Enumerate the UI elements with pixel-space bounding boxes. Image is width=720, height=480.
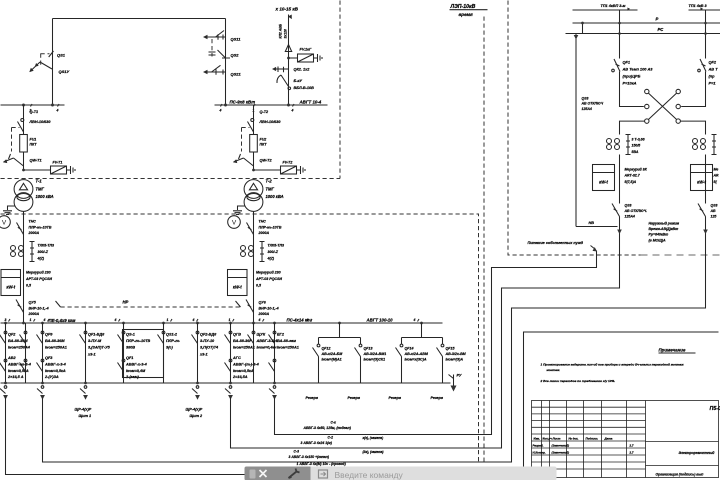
node on 0.4kV bus <box>41 322 44 325</box>
svg-text:2×16,5 А: 2×16,5 А <box>7 375 24 379</box>
svg-text:ТЛ05-ТЛ3: ТЛ05-ТЛ3 <box>268 244 285 248</box>
fuse FU2 <box>250 135 258 153</box>
bus tick <box>233 319 235 322</box>
svg-text:3 АВВГ-3 4х24 1(м): 3 АВВГ-3 4х24 1(м) <box>301 441 333 445</box>
svg-text:ПЛР-нь-10ТВ: ПЛР-нь-10ТВ <box>259 225 282 229</box>
dashed enclosure KTP boundary (y=213.5 then down x=478) <box>1 214 479 462</box>
outgoing connector <box>269 382 277 400</box>
node on 0.4kV bus <box>196 322 199 325</box>
wire to FV-Т1 <box>24 169 51 171</box>
svg-text:4: 4 <box>56 109 59 113</box>
switch QУ6 <box>246 300 254 313</box>
svg-text:Резерв: Резерв <box>306 396 319 400</box>
bus 10kV section 1 <box>1 104 65 106</box>
wire to arrester FV1 <box>289 57 298 59</box>
reserve bracket at 339 <box>319 323 361 345</box>
svg-text:2.7: 2.7 <box>629 451 634 455</box>
tie link HP (dashed) <box>61 306 241 308</box>
node on 0.4kV bus <box>420 322 423 325</box>
svg-text:QУ6: QУ6 <box>259 301 267 305</box>
node: bridge tap left <box>51 104 54 107</box>
svg-text:Т-1: Т-1 <box>36 179 43 184</box>
svg-text:QF3: QF3 <box>45 356 53 360</box>
svg-text:ПЛР-ль-10ТВ: ПЛР-ль-10ТВ <box>126 339 151 343</box>
svg-text:АВ Т: АВ Т <box>708 67 719 72</box>
svg-text:Время-АВ(Д)кВт: Время-АВ(Д)кВт <box>649 227 679 231</box>
svg-text:АВ-х/2А-БМ: АВ-х/2А-БМ <box>321 352 344 356</box>
svg-text:3,(ЗАП)Т-У5: 3,(ЗАП)Т-У5 <box>88 346 111 350</box>
node: arrester tap <box>22 169 25 172</box>
svg-text:кW-t: кW-t <box>599 180 608 185</box>
svg-text:АВГТ 100-10: АВГТ 100-10 <box>366 318 394 323</box>
wire: left riser <box>575 34 577 227</box>
transformer Т-1 <box>14 180 33 199</box>
wire: crossover bottom right <box>680 121 705 134</box>
current transformers TA4 <box>693 139 698 144</box>
svg-text:1000 кВА: 1000 кВА <box>266 194 284 199</box>
feeder QF at x=42 <box>37 323 44 383</box>
svg-text:3,П(ОТ)Т4: 3,П(ОТ)Т4 <box>200 346 219 350</box>
svg-text:Кол.уч: Кол.уч <box>543 437 553 441</box>
svg-text:Примечание: Примечание <box>659 348 686 353</box>
svg-text:АВ-3/2А-ВМ1: АВ-3/2А-ВМ1 <box>363 352 387 356</box>
svg-text:П5-0012-ЭС: П5-0012-ЭС <box>710 406 720 412</box>
svg-text:QF2: QF2 <box>8 333 16 337</box>
svg-text:Iном=(З)СК1: Iном=(З)СК1 <box>364 358 386 362</box>
svg-text:Разраб.: Разраб. <box>533 444 544 448</box>
current transformers TA3 <box>607 139 612 144</box>
svg-text:АВ ОТКЛЮЧ.: АВ ОТКЛЮЧ. <box>624 209 648 213</box>
bus PC <box>566 33 720 35</box>
wire: crossover bottom left <box>620 121 645 134</box>
svg-text:QF14: QF14 <box>405 347 414 351</box>
svg-text:Iном=(М)А1: Iном=(М)А1 <box>322 358 342 362</box>
svg-text:1: 1 <box>229 318 231 322</box>
svg-text:ЛВН-10/630: ЛВН-10/630 <box>29 120 52 124</box>
svg-text:АРТ-03 РQСSИ: АРТ-03 РQСSИ <box>255 277 282 281</box>
outgoing connector <box>225 382 233 400</box>
jumper P-PC <box>582 23 584 34</box>
svg-text:3х120: 3х120 <box>284 29 288 39</box>
switch QS4 <box>612 204 620 217</box>
svg-text:QW-Т2: QW-Т2 <box>260 159 273 163</box>
svg-text:АВВГ-3 4х50, 125м, (подвал): АВВГ-3 4х50, 125м, (подвал) <box>303 426 352 430</box>
ground (transformer neutral) <box>233 206 245 215</box>
feeder QF at x=5 <box>0 323 7 383</box>
svg-text:ПКТ: ПКТ <box>30 143 38 147</box>
svg-text:FV-Т1: FV-Т1 <box>53 161 63 165</box>
svg-text:время: время <box>459 12 474 17</box>
svg-text:QS1: QS1 <box>57 53 66 58</box>
svg-text:ЩР-4(х)Р: ЩР-4(х)Р <box>75 408 92 412</box>
svg-text:монтаж.: монтаж. <box>547 368 561 372</box>
current transformers ТА1 <box>11 246 16 251</box>
svg-text:Электроремонтный: Электроремонтный <box>679 451 716 455</box>
bus tick <box>311 319 313 322</box>
voltmeter PV2 <box>228 216 241 229</box>
dashed boundary x=507 with corner to the right <box>508 1 641 256</box>
svg-text:ПЛР-ль: ПЛР-ль <box>166 339 180 343</box>
svg-text:2.7: 2.7 <box>629 444 634 448</box>
svg-text:QК2. 1х2: QК2. 1х2 <box>294 68 311 72</box>
switch Q-Т1 <box>23 105 25 135</box>
switch QW-Т1 <box>4 158 24 166</box>
switch QУ5 <box>16 300 24 313</box>
node: arrester tap <box>252 169 255 172</box>
svg-text:5ВА: 5ВА <box>632 150 639 154</box>
prompt icon <box>319 470 328 478</box>
svg-text:4(Z): 4(Z) <box>37 256 45 260</box>
svg-text:Щит 2: Щит 2 <box>190 414 204 418</box>
svg-text:3-ПУ-М: 3-ПУ-М <box>88 339 102 343</box>
svg-text:ВНР-10-1,-4: ВНР-10-1,-4 <box>29 306 49 310</box>
svg-text:АВВГ-х-3-4: АВВГ-х-3-4 <box>125 362 148 366</box>
switch QW3 <box>272 67 314 91</box>
wire B <box>231 234 620 449</box>
svg-text:4: 4 <box>413 318 416 322</box>
feeder QF at x=123 <box>118 323 125 383</box>
svg-text:2=16,5А: 2=16,5А <box>232 375 248 379</box>
svg-text:FV-Т2: FV-Т2 <box>283 161 293 165</box>
node on 0.4kV bus <box>338 322 341 325</box>
switch QS5r <box>698 204 706 217</box>
node on 0.4kV bus <box>22 322 25 325</box>
svg-text:1 Проектирование габарита лин: 1 Проектирование габарита лин-ий нов при… <box>541 363 685 367</box>
svg-text:QS-1: QS-1 <box>126 333 135 337</box>
svg-text:4(Z): 4(Z) <box>267 256 275 260</box>
wire C <box>43 234 706 463</box>
svg-text:х 10-15 кВ: х 10-15 кВ <box>275 7 299 12</box>
svg-text:2000А: 2000А <box>28 231 40 235</box>
svg-text:Организация (подпись) вып: Организация (подпись) вып <box>656 473 705 477</box>
svg-text:С-3: С-3 <box>294 450 300 454</box>
grey dashed boundary segment right <box>641 254 720 256</box>
tool icon <box>289 469 300 479</box>
small panel icon <box>250 470 256 479</box>
svg-text:4: 4 <box>291 109 294 113</box>
svg-text:1: 1 <box>167 318 169 322</box>
svg-text:3 АВВГ-3 4х150 +(канал): 3 АВВГ-3 4х150 +(канал) <box>289 455 330 459</box>
svg-text:ЕГ2: ЕГ2 <box>277 333 285 337</box>
command bar dark segment <box>245 467 311 480</box>
command bar background <box>245 467 557 480</box>
svg-text:Резерв: Резерв <box>431 396 444 400</box>
svg-text:2000А: 2000А <box>258 312 270 316</box>
bus tick <box>9 319 11 322</box>
svg-text:(Замечаний): (Замечаний) <box>552 444 570 448</box>
svg-text:1000 кВА: 1000 кВА <box>36 194 54 199</box>
svg-text:АВ-х/2А-АВМ: АВ-х/2А-АВМ <box>404 352 429 356</box>
svg-text:кW-t: кW-t <box>697 180 706 185</box>
svg-text:Iном=х(ЗС)А: Iном=х(ЗС)А <box>405 358 427 362</box>
disconnector QS2 with link <box>209 39 240 58</box>
node on 0.4kV bus <box>122 322 125 325</box>
svg-text:АВ: АВ <box>710 209 717 213</box>
svg-text:1: 1 <box>30 318 32 322</box>
svg-text:QS3: QS3 <box>625 204 632 208</box>
svg-text:ТНС: ТНС <box>29 220 37 224</box>
svg-text:QF2-ВД8: QF2-ВД8 <box>200 333 217 337</box>
svg-text:4: 4 <box>219 109 222 113</box>
svg-text:QW-Т1: QW-Т1 <box>30 159 42 163</box>
svg-text:С-к: С-к <box>331 421 337 425</box>
svg-text:РС: РС <box>658 27 665 32</box>
cell dashed outline <box>12 128 20 152</box>
svg-text:Питание собственных нужд: Питание собственных нужд <box>528 241 584 245</box>
svg-text:QF2: QF2 <box>709 60 717 65</box>
svg-text:2000А: 2000А <box>28 312 40 316</box>
svg-text:ВА-88-зам: ВА-88-зам <box>277 339 296 343</box>
breaker QF14 <box>400 344 403 347</box>
meter (kWh) right <box>691 165 713 191</box>
svg-text:Iном=0,5кА: Iном=0,5кА <box>45 369 66 373</box>
bus tick <box>34 319 36 322</box>
svg-text:1 АВВГ-3 4х(М) 10с - (провод): 1 АВВГ-3 4х(М) 10с - (провод) <box>297 462 347 466</box>
outgoing connector <box>192 382 200 400</box>
wire <box>619 155 621 204</box>
svg-text:ВА-88-36М: ВА-88-36М <box>45 339 65 343</box>
svg-text:Дата: Дата <box>604 437 613 441</box>
svg-text:Iном=(З)А: Iном=(З)А <box>446 358 464 362</box>
feeder QF at x=230 <box>225 323 232 383</box>
svg-text:4: 4 <box>306 318 309 322</box>
svg-text:ЩУК: ЩУК <box>257 333 266 337</box>
switch ТНС <box>17 223 24 235</box>
svg-text:QF1: QF1 <box>623 60 631 65</box>
wire HB link <box>576 226 618 228</box>
svg-text:ТМГ: ТМГ <box>36 186 45 191</box>
reserve bracket at 421 <box>402 323 443 345</box>
disconnector QS11 <box>203 31 241 42</box>
svg-text:125: 125 <box>711 214 717 218</box>
svg-text:4: 4 <box>43 318 46 322</box>
svg-text:ВНР-10-1,-4: ВНР-10-1,-4 <box>259 306 279 310</box>
svg-text:150/5: 150/5 <box>632 144 641 148</box>
svg-text:ТЛ05-ТЛ3: ТЛ05-ТЛ3 <box>38 244 55 248</box>
svg-text:(Замечаний): (Замечаний) <box>552 451 570 455</box>
node: bay1 tap <box>22 104 25 107</box>
dashed enclosure RU-10kV bottom edge <box>1 178 341 180</box>
svg-text:Ме: Ме <box>714 168 719 172</box>
bus 10kV section 2 <box>215 104 328 106</box>
svg-text:(в МОЩ)А: (в МОЩ)А <box>649 238 667 242</box>
svg-text:Р=10кА: Р=10кА <box>623 81 637 86</box>
bus tick <box>48 319 50 322</box>
svg-text:(Зк), (замена): (Зк), (замена) <box>363 450 384 454</box>
outgoing connector <box>80 382 88 400</box>
svg-text:ВБЛ-В-10В: ВБЛ-В-10В <box>294 86 315 90</box>
svg-text:2 Все линии переходов по треб: 2 Все линии переходов по требованию х/у … <box>540 379 616 383</box>
svg-text:Р=1: Р=1 <box>709 81 716 86</box>
svg-text:QS3: QS3 <box>711 204 718 208</box>
meter PI2 (kWh) <box>228 270 248 296</box>
svg-text:Резерв: Резерв <box>348 396 361 400</box>
svg-text:ТП1 4кВ 3: ТП1 4кВ 3 <box>689 4 708 8</box>
wire <box>705 155 707 204</box>
node: incoming tap <box>287 104 290 107</box>
svg-text:380В: 380В <box>126 346 135 350</box>
changeover switch (crossover) <box>645 89 681 123</box>
close icon <box>260 470 267 477</box>
svg-text:Меркурий 230: Меркурий 230 <box>256 271 281 275</box>
current transformers ТА2 <box>241 246 246 251</box>
svg-text:(пр: (пр <box>709 74 716 79</box>
voltmeter PV1 <box>0 216 10 229</box>
svg-text:Введите команду: Введите команду <box>335 470 404 480</box>
svg-text:V: V <box>232 220 237 227</box>
svg-text:QS1У: QS1У <box>59 69 70 74</box>
svg-text:Q-Т2: Q-Т2 <box>260 110 270 114</box>
svg-text:Iном=0,4кч: Iном=0,4кч <box>257 346 278 350</box>
svg-text:3: 3 <box>5 318 7 322</box>
svg-text:Меркурий 3К: Меркурий 3К <box>625 168 648 172</box>
bus tick <box>171 319 173 322</box>
svg-text:КЛ2 АВБ: КЛ2 АВБ <box>279 23 283 38</box>
svg-text:АВ-3/2х-ВМ: АВ-3/2х-ВМ <box>445 352 467 356</box>
svg-text:Iном=250А4: Iном=250А4 <box>8 346 31 350</box>
cell dashed outline <box>242 128 250 152</box>
svg-text:АВ ОТКЛЮЧ: АВ ОТКЛЮЧ <box>581 102 604 106</box>
feeder QF at x=25 <box>20 323 27 383</box>
svg-text:Рр=640кВт: Рр=640кВт <box>649 233 669 237</box>
svg-text:РУ: РУ <box>457 374 462 378</box>
svg-text:QГВ: QГВ <box>233 333 241 337</box>
svg-text:QF12: QF12 <box>322 347 331 351</box>
svg-text:АГС: АГС <box>232 356 241 360</box>
svg-text:QS3: QS3 <box>582 97 589 101</box>
svg-text:QS2: QS2 <box>231 53 240 58</box>
disconnector QS21 <box>203 65 242 76</box>
dashed enclosure RU-10kV right edge <box>339 1 341 179</box>
disconnector QS1 <box>29 51 69 74</box>
arrow to wire A <box>591 246 596 250</box>
svg-text:ПС-9х8 кВт: ПС-9х8 кВт <box>230 100 256 105</box>
svg-text:Т-2: Т-2 <box>266 179 273 184</box>
svg-text:АВВГ-х-3-4: АВВГ-х-3-4 <box>44 362 67 366</box>
breaker QF1 <box>612 10 644 107</box>
svg-text:QF9: QF9 <box>45 333 53 337</box>
breaker QF13 <box>359 344 362 347</box>
title block frame <box>532 401 719 478</box>
svg-text:Изм.: Изм. <box>534 437 541 441</box>
svg-text:х3-1: х3-1 <box>199 352 208 356</box>
svg-text:НР: НР <box>123 300 129 305</box>
svg-text:QS1-2: QS1-2 <box>166 333 178 337</box>
breaker QF15 <box>441 344 444 347</box>
svg-text:ЩР-4(х)Р: ЩР-4(х)Р <box>186 408 203 412</box>
wire <box>705 217 707 234</box>
wire: incoming feeder <box>288 15 290 106</box>
svg-text:АВГТ 10-4: АВГТ 10-4 <box>299 100 322 105</box>
svg-text:4: 4 <box>192 318 195 322</box>
bus 0.4kV <box>1 322 443 324</box>
svg-text:Iном=250А1: Iном=250А1 <box>277 346 299 350</box>
svg-text:Iном=0,4М: Iном=0,4М <box>126 369 146 373</box>
svg-text:ПКТ: ПКТ <box>260 143 268 147</box>
bus P <box>573 22 720 24</box>
svg-text:QF13: QF13 <box>364 347 373 351</box>
svg-text:ТМГ: ТМГ <box>266 186 275 191</box>
svg-text:АR: АR <box>713 174 720 178</box>
svg-text:5(7,5)А: 5(7,5)А <box>625 180 637 184</box>
svg-text:х3-1: х3-1 <box>87 352 96 356</box>
breaker QF12 <box>317 344 320 347</box>
svg-text:3-ПУ-10: 3-ПУ-10 <box>200 339 215 343</box>
svg-text:Меркурий 230: Меркурий 230 <box>26 271 51 275</box>
wire D <box>6 332 719 475</box>
svg-text:кW-t: кW-t <box>6 285 15 290</box>
svg-text:АВ Темп 100 А3: АВ Темп 100 А3 <box>622 67 654 72</box>
node: junction to arrester <box>287 57 290 60</box>
wire to FV-Т2 <box>254 169 281 171</box>
grounding symbol RU <box>449 374 462 392</box>
svg-text:Наружный режим: Наружный режим <box>649 222 680 226</box>
feeder QF at x=274 <box>269 323 276 383</box>
bus tick <box>263 319 265 322</box>
wire <box>619 217 621 234</box>
svg-text:4: 4 <box>114 318 117 322</box>
meter (kWh) left <box>593 165 615 191</box>
svg-text:2000А: 2000А <box>258 231 270 235</box>
svg-text:ПС-4х14 кги: ПС-4х14 кги <box>287 318 313 323</box>
feeder cell box <box>123 330 164 378</box>
dashed boundary x=483 <box>483 17 485 463</box>
cable termination <box>285 45 291 52</box>
outgoing connector <box>0 382 8 400</box>
svg-text:ВА-88-36Р: ВА-88-36Р <box>233 339 252 343</box>
svg-text:300/-Z: 300/-Z <box>268 250 279 254</box>
feeder QF at x=163 <box>158 323 165 383</box>
svg-text:Q-Т1: Q-Т1 <box>30 110 39 114</box>
svg-text:FU1: FU1 <box>30 138 37 142</box>
svg-text:V: V <box>2 220 7 227</box>
svg-text:125А4: 125А4 <box>625 214 635 218</box>
svg-text:АRТ-02.7: АRТ-02.7 <box>624 174 641 178</box>
svg-text:АРТ-03 РQСSИ: АРТ-03 РQСSИ <box>25 277 52 281</box>
svg-text:Р: Р <box>656 17 659 22</box>
node: bridge tap right <box>224 104 227 107</box>
feeder from T-2 secondary <box>253 323 255 383</box>
fuse FU1 <box>20 135 28 153</box>
outgoing connector <box>37 382 45 400</box>
svg-text:QУ5: QУ5 <box>29 301 37 305</box>
svg-text:FV.1кГ: FV.1кГ <box>300 48 313 52</box>
wire: 0.4kV outgoing trunk <box>1 382 451 384</box>
node on 0.4kV bus <box>273 322 276 325</box>
bus tick <box>418 319 420 322</box>
node on 0.4kV bus <box>229 322 232 325</box>
svg-text:2-(У)ЗА: 2-(У)ЗА <box>44 375 59 379</box>
svg-text:ПЕ-0,4х9 кгм: ПЕ-0,4х9 кгм <box>49 318 77 323</box>
svg-text:125А4: 125А4 <box>582 107 592 111</box>
svg-text:ЛВН-10/630: ЛВН-10/630 <box>259 120 282 124</box>
node on 0.4kV bus <box>84 322 87 325</box>
meter PI1 (kWh) <box>1 270 21 296</box>
svg-text:QF1: QF1 <box>126 356 133 360</box>
svg-text:300/-Z: 300/-Z <box>38 250 49 254</box>
svg-text:АВВГ-3-3-4: АВВГ-3-3-4 <box>256 339 279 343</box>
svg-text:Лист: Лист <box>552 437 561 441</box>
switch ТНС <box>247 223 254 235</box>
wire: 10kV bus-section bridge <box>53 19 226 106</box>
svg-text:№ док.: № док. <box>569 437 579 441</box>
svg-text:QF1-ВД8: QF1-ВД8 <box>88 333 105 337</box>
svg-text:Б-кУ: Б-кУ <box>294 79 303 83</box>
svg-text:х(к), (замена): х(к), (замена) <box>362 436 384 440</box>
feeder QF at x=85 <box>80 323 87 383</box>
svg-text:Щит 1: Щит 1 <box>79 414 92 418</box>
svg-text:Iном=0,5кА: Iном=0,5кА <box>233 369 254 373</box>
